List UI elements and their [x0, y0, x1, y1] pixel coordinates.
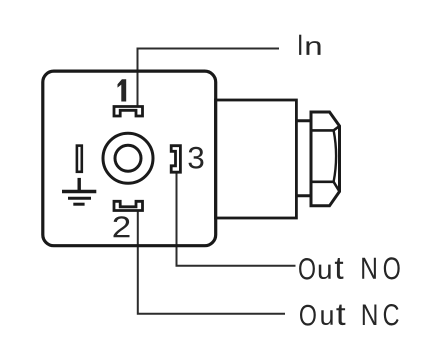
pin number 3: [189, 147, 204, 169]
hex nut middle facet curve: [334, 130, 337, 181]
ground symbol bar 3: [73, 203, 84, 206]
ground symbol bar 2: [68, 197, 91, 200]
ground symbol bar 1: [62, 190, 96, 193]
gland neck upper line: [295, 119, 312, 122]
center socket outer circle: [103, 133, 153, 183]
gland neck lower line: [295, 194, 312, 197]
pin 2 contact: [114, 201, 143, 210]
wire In: [138, 49, 280, 107]
ground slot: [77, 146, 82, 172]
center socket inner circle: [115, 145, 141, 171]
wire Out NO: [177, 171, 296, 266]
cable gland body rectangle: [216, 100, 297, 218]
label Out NO: [299, 258, 315, 280]
pin number 1: [118, 79, 127, 101]
connector body (DIN valve connector outline): [43, 71, 216, 246]
pin 1 contact: [114, 107, 143, 117]
pin number 2: [114, 216, 130, 237]
label Out NC: [300, 305, 316, 326]
hex nut upper facet line: [311, 126, 340, 130]
pin 3 contact: [171, 146, 180, 173]
hex nut silhouette: [311, 112, 340, 206]
hex nut lower facet line: [311, 182, 340, 192]
ground symbol stem: [77, 178, 80, 192]
wire Out NC: [138, 209, 285, 314]
label In: [299, 35, 301, 55]
